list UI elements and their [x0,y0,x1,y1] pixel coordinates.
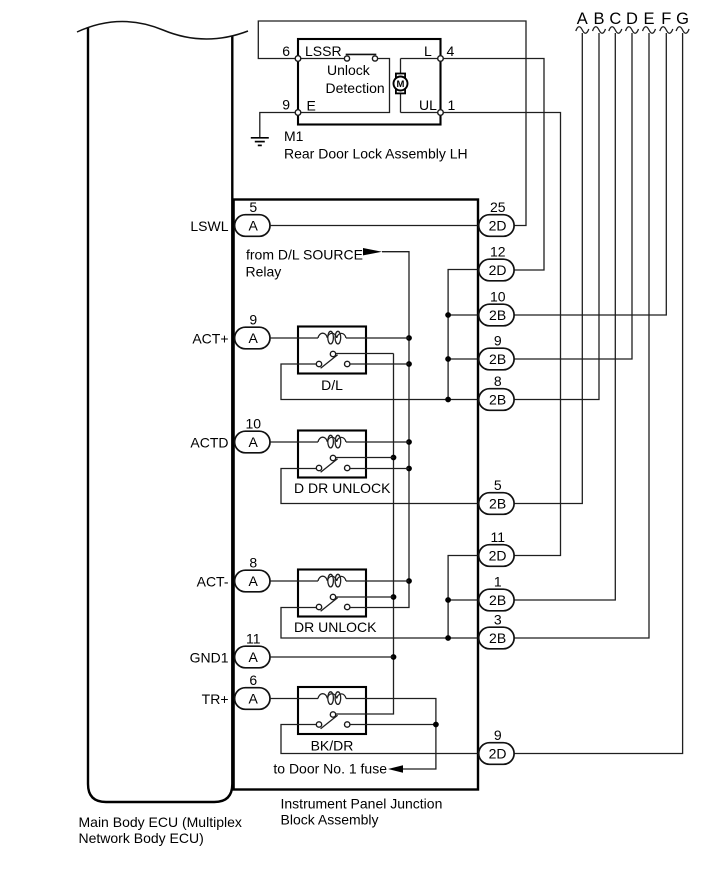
svg-text:C: C [609,10,621,28]
svg-text:Rear Door Lock Assembly LH: Rear Door Lock Assembly LH [284,145,468,161]
svg-text:4: 4 [447,43,455,59]
wire DR UNLOCK pivot to pivot bus [336,596,394,598]
connector 2D pin 12 [479,244,514,281]
net A [514,10,589,504]
wire BK/DR coil to door fuse drop [346,699,436,770]
svg-text:LSSR: LSSR [305,43,342,59]
svg-text:E: E [307,98,316,114]
svg-text:A: A [249,218,259,234]
wire ACT+ A9 to D/L coil [270,337,318,339]
svg-text:9: 9 [282,97,290,113]
unlock detection switch [301,54,390,112]
connector 2B pin 3 [479,612,514,649]
motor M [394,59,439,113]
svg-text:Block Assembly: Block Assembly [281,812,379,828]
svg-text:M1: M1 [284,128,304,144]
wire ACT- A8 to DR UNLOCK coil [270,580,318,582]
net F [514,10,673,315]
wire TR+ A6 to BK/DR coil [270,698,318,700]
wire D DR UNLOCK pivot to pivot bus [336,457,394,459]
connector 2D pin 9 [479,727,514,764]
connector 2B pin 8 [479,373,514,410]
svg-text:2D: 2D [489,548,507,564]
wire pin 4 L to connector 2D pin 12 [443,59,544,271]
svg-text:to Door No. 1 fuse: to Door No. 1 fuse [273,761,387,777]
wire D DR UNLOCK left contact loop to 2B5 [281,469,478,504]
wire pin 1 UL to connector 2D pin 11 [443,113,560,556]
svg-text:10: 10 [246,416,262,432]
svg-text:12: 12 [490,244,506,260]
svg-text:11: 11 [246,631,261,647]
svg-text:9: 9 [494,333,502,349]
wire BK/DR right contact to fuse drop [350,722,439,728]
svg-text:DR UNLOCK: DR UNLOCK [294,619,377,635]
svg-text:E: E [643,10,654,28]
svg-text:ACT+: ACT+ [192,330,228,346]
svg-text:Main Body ECU (Multiplex: Main Body ECU (Multiplex [79,814,242,830]
wire DR UNLOCK coil to source bus [346,580,409,582]
ECU top break wavy line [77,21,248,39]
svg-text:D/L: D/L [321,377,343,393]
relay BK/DR [298,687,366,754]
svg-text:A: A [249,330,259,346]
svg-text:ACTD: ACTD [190,434,228,450]
connector 2B pin 10 [479,289,514,326]
junction dots on pivot bus [391,455,397,660]
pin 6 [282,43,301,61]
pin 4 [438,43,455,61]
svg-text:2D: 2D [489,262,507,278]
junction dot tap bus on 2B3 wire [445,635,451,641]
svg-text:BK/DR: BK/DR [311,738,354,754]
svg-text:from D/L SOURCE: from D/L SOURCE [246,247,363,263]
wire D/L SOURCE feed (vertical bus x=409) [350,252,409,608]
wire ACTD A10 to D DR UNLOCK coil [270,441,318,443]
svg-text:L: L [424,43,432,59]
svg-text:TR+: TR+ [202,691,229,707]
svg-text:A: A [577,10,588,28]
wire D DR UNLOCK right contact to source bus [350,468,409,470]
connector A pin 10 (ACTD) [190,416,270,453]
relay D DR UNLOCK [294,431,391,497]
net G [514,10,689,754]
svg-text:D: D [626,10,638,28]
svg-text:3: 3 [494,612,502,628]
svg-text:2D: 2D [489,746,507,762]
svg-text:A: A [249,434,259,450]
wire GND1 A11 to pivot bus [270,656,394,658]
wire D/L pivot to pivot bus [336,353,394,355]
wire pin 6 LSSR loop to connector 2D pin 25 [258,21,526,226]
svg-text:ACT-: ACT- [197,573,229,589]
svg-text:2D: 2D [489,218,507,234]
svg-text:5: 5 [494,477,502,493]
ground [251,138,269,146]
svg-text:Relay: Relay [246,264,282,280]
junction box: Instrument Panel Junction Block Assembly [234,200,478,828]
svg-text:G: G [676,10,689,28]
ECU box: Main Body ECU (Multiplex Network Body ECU) [79,27,242,846]
svg-text:F: F [661,10,671,28]
wire 2D11 tap bus (x=448 lower) [448,556,477,639]
wire DR UNLOCK left contact loop to 2B3 [281,608,478,639]
connector A pin 6 (TR+) [202,672,270,709]
svg-text:9: 9 [494,727,502,743]
label to Door No. 1 fuse [273,761,403,777]
svg-text:2B: 2B [489,351,506,367]
svg-text:LSWL: LSWL [190,218,228,234]
connector 2B pin 1 [479,574,514,611]
net D [514,10,639,359]
svg-text:6: 6 [282,43,290,59]
net C [514,10,622,600]
svg-text:A: A [249,573,259,589]
svg-text:2B: 2B [489,496,506,512]
wire tap to 2B1 [445,597,477,603]
connector A pin 8 (ACT-) [197,555,270,592]
pin 9 [282,97,301,116]
net B [514,10,606,400]
svg-text:Instrument Panel Junction: Instrument Panel Junction [281,796,443,812]
pivot bus (vertical x=393.5, D/L pivot to BK/DR pivot) [336,354,394,715]
svg-text:9: 9 [249,312,257,328]
svg-text:Network Body ECU): Network Body ECU) [79,830,204,846]
connector A pin 9 (ACT+) [192,312,270,349]
svg-text:D DR UNLOCK: D DR UNLOCK [294,480,391,496]
svg-text:8: 8 [249,555,257,571]
connector 2B pin 9 [479,333,514,370]
wire tap to 2B9 [445,356,477,362]
wire pin 9 to ground [260,113,295,138]
svg-text:Detection: Detection [326,80,385,96]
wire tap to 2B10 [445,312,477,318]
junction dot tap bus on 2B8 wire [445,397,451,403]
connector A pin 11 (GND1) [190,631,270,668]
net E [514,10,656,638]
svg-text:10: 10 [490,289,506,305]
svg-text:M: M [397,79,405,90]
wire 2D12 tap bus (x=448) [448,270,477,400]
pin 1 [438,97,456,115]
svg-text:2B: 2B [489,630,506,646]
connector 2D pin 11 [479,529,514,566]
wire D DR UNLOCK coil to source bus [346,441,409,443]
svg-text:8: 8 [494,373,502,389]
junction dots on source feed bus [406,335,412,584]
wire LSWL A5 to 2D25 [270,225,478,227]
svg-text:5: 5 [249,199,257,215]
svg-text:1: 1 [448,97,456,113]
svg-text:25: 25 [490,199,506,215]
svg-text:UL: UL [419,97,437,113]
wire BK/DR left contact loop to 2D9 [281,725,478,754]
svg-text:11: 11 [491,529,506,545]
svg-text:2B: 2B [489,592,506,608]
svg-text:GND1: GND1 [190,649,229,665]
svg-text:Unlock: Unlock [327,62,371,78]
connector 2D pin 25 [479,199,514,236]
relay DR UNLOCK [294,570,377,636]
connector A pin 5 (LSWL) [190,199,270,236]
svg-text:A: A [249,649,259,665]
svg-text:2B: 2B [489,392,506,408]
wire D/L right contact to source bus [350,363,409,365]
relay D/L [298,327,366,394]
rear door lock assembly LH box M1 [284,39,468,161]
wire D/L left contact loop to 2B8 [281,364,478,400]
svg-text:A: A [249,691,259,707]
svg-text:1: 1 [494,574,502,590]
svg-text:B: B [593,10,604,28]
wire D/L coil to source bus [346,337,409,339]
svg-text:2B: 2B [489,307,506,323]
svg-text:6: 6 [249,672,257,688]
label from D/L SOURCE Relay [246,247,383,280]
connector 2B pin 5 [479,477,514,514]
